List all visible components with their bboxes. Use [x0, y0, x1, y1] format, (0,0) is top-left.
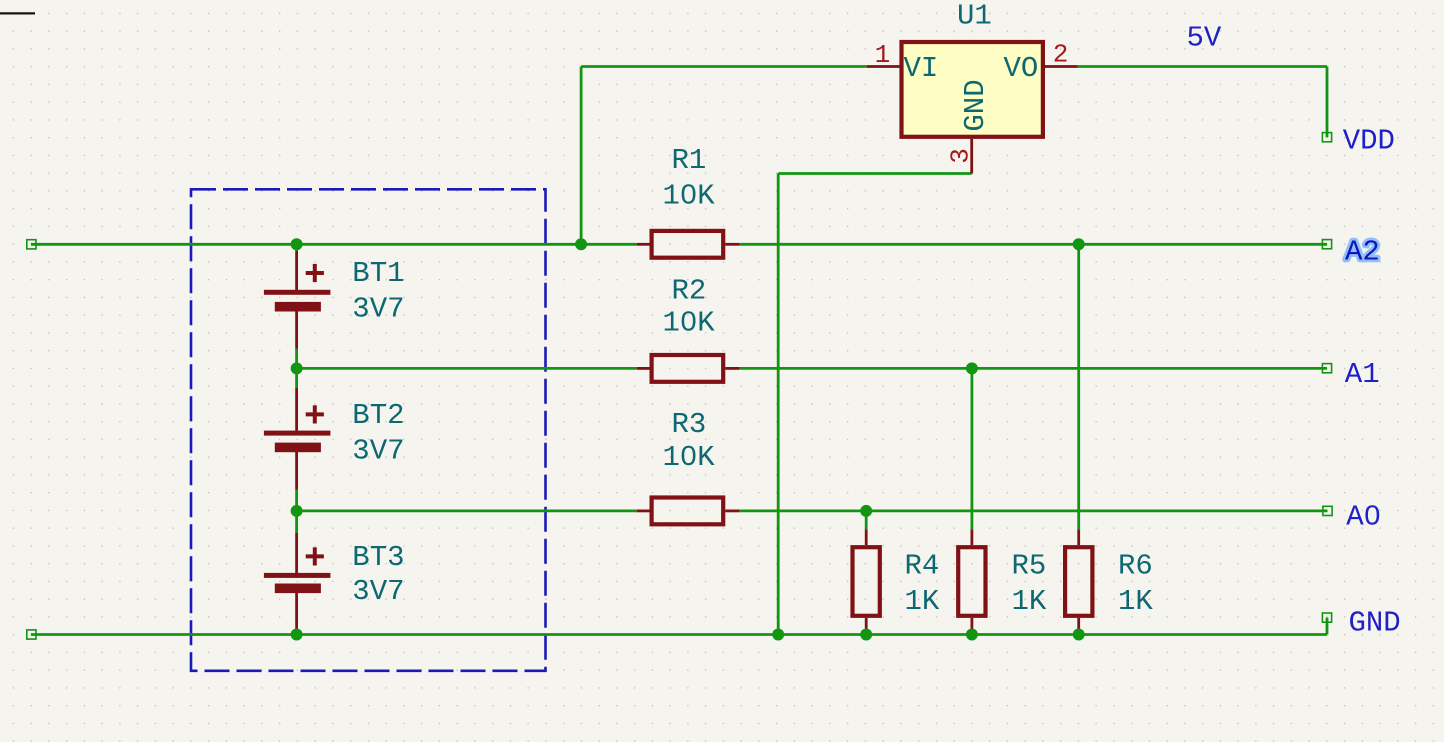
- svg-text:3V7: 3V7: [352, 575, 404, 608]
- svg-text:1K: 1K: [905, 585, 940, 618]
- svg-text:U1: U1: [957, 0, 992, 32]
- svg-text:R5: R5: [1012, 550, 1047, 583]
- svg-text:BT1: BT1: [352, 257, 404, 290]
- svg-text:R4: R4: [905, 550, 940, 583]
- svg-text:GND: GND: [959, 79, 992, 131]
- svg-text:3V7: 3V7: [352, 293, 404, 326]
- svg-text:A1: A1: [1345, 358, 1380, 391]
- svg-text:R3: R3: [672, 408, 707, 441]
- svg-text:A2: A2: [1345, 235, 1380, 268]
- svg-text:GND: GND: [1349, 607, 1401, 640]
- svg-text:BT2: BT2: [352, 399, 404, 432]
- svg-text:A0: A0: [1346, 501, 1381, 534]
- svg-text:R6: R6: [1118, 550, 1153, 583]
- svg-text:VO: VO: [1004, 52, 1039, 85]
- svg-text:5V: 5V: [1187, 22, 1222, 55]
- svg-text:R2: R2: [672, 275, 707, 308]
- svg-text:3: 3: [946, 148, 976, 164]
- svg-text:1: 1: [875, 40, 891, 70]
- svg-text:1K: 1K: [1012, 585, 1047, 618]
- svg-text:VDD: VDD: [1343, 125, 1395, 158]
- svg-text:1K: 1K: [1118, 585, 1153, 618]
- svg-text:BT3: BT3: [352, 541, 404, 574]
- svg-text:2: 2: [1053, 40, 1069, 70]
- svg-text:R1: R1: [672, 144, 707, 177]
- svg-text:3V7: 3V7: [352, 434, 404, 467]
- svg-text:VI: VI: [904, 52, 939, 85]
